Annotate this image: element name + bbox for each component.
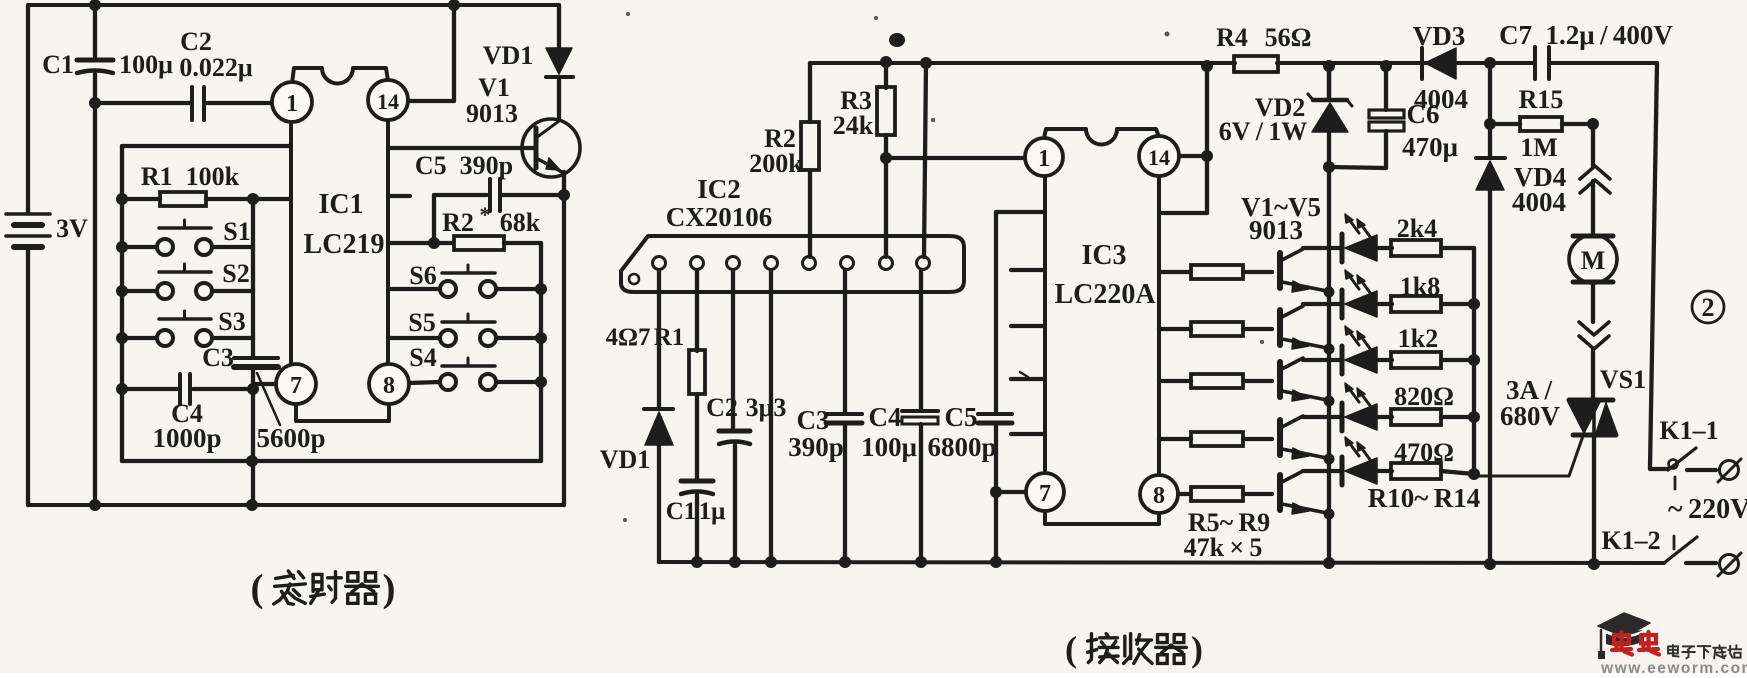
svg-text:www.eeworm.com: www.eeworm.com [1600, 660, 1747, 673]
resistor R2 200k receiver [808, 63, 812, 122]
switch S2 [122, 289, 157, 293]
wire transmitter top rail [28, 3, 559, 7]
svg-text:C7 1.2μ / 400V: C7 1.2μ / 400V [1499, 20, 1673, 50]
svg-text:1000p: 1000p [152, 423, 221, 453]
wire right switch rail [539, 243, 543, 461]
svg-text:~ 220V: ~ 220V [1668, 494, 1747, 525]
svg-text:VD1: VD1 [600, 445, 651, 474]
svg-text:R1: R1 [654, 324, 685, 351]
svg-text:): ) [383, 567, 396, 610]
svg-text:2: 2 [1702, 293, 1715, 322]
svg-text:C5 390p: C5 390p [415, 151, 513, 180]
pin 4 of IC2 [765, 257, 778, 270]
svg-text:8: 8 [383, 373, 395, 399]
logo text dianzi xiazaizhan [1668, 645, 1679, 656]
svg-text:1μ: 1μ [699, 498, 726, 525]
capacitor C3 5600p [234, 356, 278, 360]
svg-text:200k: 200k [749, 149, 803, 178]
LED VD3 indicator [1303, 358, 1341, 362]
diode VD1 transmitter [557, 5, 561, 47]
pin 14 of IC1 [368, 80, 408, 120]
svg-text:1: 1 [1038, 146, 1050, 172]
transistor V4 [1277, 420, 1283, 455]
wire keypad left rail [120, 146, 124, 461]
wire R3 to IC3 pin1 [886, 156, 1024, 160]
svg-text:R15: R15 [1519, 85, 1564, 114]
IC U1 IC1 LC219 body [292, 68, 388, 83]
svg-text:R1 100k: R1 100k [141, 162, 240, 191]
diode VD3 4004 [1420, 48, 1424, 79]
pin 8 of IC1 [369, 364, 409, 404]
wire LED right rail [1472, 248, 1476, 474]
svg-text:14: 14 [1148, 145, 1170, 170]
pin 14 of IC3 [1139, 136, 1179, 176]
motor M with coupling arrows [1591, 124, 1595, 166]
wire V1 emitter column [562, 172, 566, 505]
svg-text:4004: 4004 [1414, 84, 1468, 114]
capacitor C2 0.022u [190, 87, 194, 120]
scan specks [626, 12, 630, 16]
capacitor C1 100u [93, 5, 97, 57]
svg-text:(: ( [251, 567, 264, 610]
svg-text:47k × 5: 47k × 5 [1184, 533, 1263, 562]
transistor V5 [1277, 475, 1283, 510]
capacitor C2 3u3 [731, 270, 735, 428]
wire pin7 stub [255, 382, 276, 386]
wire receiver bottom rail [659, 562, 1664, 563]
svg-text:C4: C4 [869, 402, 902, 432]
capacitor C4 1000p [122, 387, 177, 391]
svg-text:680V: 680V [1500, 401, 1561, 431]
diode VD1 receiver [657, 270, 661, 407]
switch K1-2 [1664, 537, 1697, 563]
svg-text:24k: 24k [833, 111, 874, 140]
svg-text:): ) [1191, 629, 1203, 669]
zener diode VD2 6V1W [1323, 60, 1335, 72]
capacitor C1 1u receiver [681, 479, 713, 484]
svg-text:(: ( [1065, 629, 1077, 669]
wire V1 base [388, 146, 534, 150]
svg-text:C2: C2 [180, 27, 212, 56]
node C5 to pin7 junction [990, 486, 1002, 498]
svg-text:R10~ R14: R10~ R14 [1368, 483, 1480, 513]
svg-text:VD1: VD1 [483, 41, 534, 70]
wire keypad box top [122, 144, 291, 148]
node top-right junction [448, 0, 460, 11]
svg-text:820Ω: 820Ω [1394, 382, 1454, 411]
svg-text:3μ3: 3μ3 [746, 393, 787, 422]
svg-text:IC1: IC1 [318, 189, 363, 220]
switch S1 [122, 245, 157, 249]
ink blob [889, 33, 905, 47]
pin 7 of IC1 [276, 364, 316, 404]
svg-text:470Ω: 470Ω [1394, 438, 1454, 467]
wire transmitter bottom rail [28, 503, 564, 507]
logo chongchong red characters [1612, 632, 1632, 655]
wire IC3 stub to C5 [996, 210, 1045, 214]
svg-text:68k: 68k [500, 208, 541, 237]
resistor R7 47k [1159, 379, 1191, 383]
pin 2 of IC2 [691, 257, 704, 270]
svg-text:CX20106: CX20106 [666, 202, 773, 232]
svg-text:56Ω: 56Ω [1265, 23, 1312, 52]
svg-text:IC3: IC3 [1081, 240, 1126, 271]
svg-text:VD3: VD3 [1413, 21, 1466, 51]
resistor R5 47k [1159, 270, 1191, 274]
svg-text:2k4: 2k4 [1397, 214, 1437, 243]
svg-text:R2: R2 [442, 208, 474, 237]
wire V1-V5 emitter rail [1327, 66, 1331, 99]
IC U3 IC3 LC220A body [1044, 129, 1159, 145]
resistor R8 47k [1159, 437, 1191, 441]
switch K1-1 [1669, 460, 1678, 469]
svg-text:6V / 1W: 6V / 1W [1219, 117, 1307, 146]
svg-text:C5: C5 [945, 402, 978, 432]
pin 7 of IC3 [1026, 473, 1064, 511]
LED VD2 indicator [1303, 302, 1341, 306]
resistor R15 1M [1488, 63, 1492, 158]
resistor R12 1k2 [1391, 352, 1441, 368]
svg-text:5600p: 5600p [256, 423, 325, 453]
capacitor C3 390p receiver [843, 270, 847, 412]
resistor R1 100k [122, 197, 160, 201]
transistor V3 [1277, 362, 1283, 397]
wire middle rail [251, 199, 255, 357]
svg-text:S3: S3 [218, 307, 245, 336]
transistor V2 [1277, 310, 1283, 345]
svg-text:C1: C1 [42, 50, 74, 79]
pin 8 of IC2 [917, 257, 930, 270]
svg-text:4Ω7: 4Ω7 [605, 324, 650, 351]
svg-text:S5: S5 [408, 308, 435, 337]
resistor R1 4ohm7 receiver [695, 270, 699, 351]
svg-text:S1: S1 [223, 217, 250, 246]
wire receiver top rail [810, 61, 1235, 65]
triac VS1 3A 680V [1569, 398, 1613, 403]
IC3 left stubs [1011, 268, 1045, 272]
wire inner bottom [122, 459, 541, 463]
pin 8 of IC3 [1140, 475, 1178, 513]
node VD2 C6 junction [1323, 161, 1335, 173]
logo graduation cap [1598, 613, 1650, 637]
svg-text:1k2: 1k2 [1398, 324, 1438, 353]
resistor R14 470&#937; [1391, 463, 1441, 479]
svg-text:9013: 9013 [466, 99, 518, 128]
node C1 bottom junction [89, 97, 101, 109]
wire battery left column [26, 5, 30, 213]
resistor R9 47k [1178, 492, 1191, 496]
svg-text:4004: 4004 [1512, 187, 1566, 217]
resistor R2star 68k [388, 241, 452, 245]
wire third column to IC2 [924, 63, 926, 257]
svg-text:VS1: VS1 [1600, 365, 1646, 394]
switch S6 [388, 287, 440, 291]
pin indicator circle IC2 [629, 274, 639, 284]
pin 6 of IC2 [841, 257, 854, 270]
capacitor C5 6800p receiver [994, 212, 998, 411]
diode VD4 4004 [1476, 156, 1505, 160]
wire right rail to K1-1 [1650, 63, 1657, 468]
svg-text:V1: V1 [478, 73, 510, 102]
svg-text:1M: 1M [1520, 133, 1558, 162]
capacitor C7 1.2u 400V [1533, 47, 1537, 79]
svg-text:S6: S6 [409, 261, 436, 290]
svg-text:C3: C3 [797, 405, 830, 435]
pin 1 of IC1 [272, 82, 312, 122]
switch S3 [122, 336, 157, 340]
svg-text:C2: C2 [706, 393, 738, 422]
svg-text:470μ: 470μ [1402, 132, 1458, 162]
resistor R10 2k4 [1391, 240, 1441, 256]
resistor R4 56ohm [1234, 56, 1278, 72]
LED VD5 indicator [1303, 469, 1341, 473]
svg-text:LC219: LC219 [304, 229, 385, 260]
svg-text:9013: 9013 [1249, 215, 1303, 245]
svg-text:0.022μ: 0.022μ [179, 53, 253, 82]
svg-text:390p: 390p [788, 432, 844, 462]
svg-text:IC2: IC2 [697, 174, 741, 204]
svg-text:K1–1: K1–1 [1659, 416, 1718, 445]
resistor R11 1k8 [1391, 296, 1441, 312]
svg-text:R4: R4 [1216, 23, 1248, 52]
wire IC2 pin4 column [769, 270, 773, 562]
callout line 5600p [257, 373, 280, 425]
svg-text:14: 14 [377, 89, 399, 114]
svg-text:C3: C3 [202, 343, 234, 372]
resistor R13 820&#937; [1391, 409, 1441, 425]
capacitor C6 470u [1380, 60, 1392, 72]
svg-text:7: 7 [1039, 481, 1051, 507]
transistor V1 [1277, 253, 1283, 288]
svg-text:6800p: 6800p [927, 432, 996, 462]
svg-text:S2: S2 [222, 259, 249, 288]
wire C1 to C2 to pin1 [95, 101, 190, 105]
resistor R6 47k [1159, 327, 1191, 331]
transistor V1 9013 [522, 119, 580, 177]
label circled 2 [1692, 291, 1724, 323]
LED VD4 indicator [1303, 415, 1341, 419]
wire pin14 loop [1179, 154, 1204, 158]
svg-text:1k8: 1k8 [1400, 272, 1440, 301]
svg-text:C1: C1 [666, 498, 697, 525]
wire IC1 right stub [388, 194, 410, 198]
wire VS1 gate [1474, 433, 1584, 476]
node top-left junction [89, 0, 101, 11]
svg-text:100μ: 100μ [861, 432, 917, 462]
resistor R3 24k [884, 62, 888, 88]
wire pin14 to top rail [409, 99, 454, 103]
pin 1 of IC2 [653, 257, 666, 270]
node top right junction [1484, 57, 1496, 69]
svg-text:8: 8 [1153, 483, 1165, 509]
switch S4 [409, 382, 440, 383]
capacitor C4 100u receiver [919, 270, 923, 409]
pin 7 of IC2 [880, 257, 893, 270]
IC U2 IC2 CX20106 body [621, 236, 964, 292]
pin 3 of IC2 [727, 257, 740, 270]
svg-text:M: M [1581, 246, 1606, 275]
capacitor C5 390p [432, 195, 436, 243]
LED VD1 indicator [1303, 246, 1341, 250]
pin 5 of IC2 [803, 257, 816, 270]
pin 1 of IC3 [1025, 138, 1063, 176]
switch S5 [388, 336, 440, 340]
svg-text:LC220A: LC220A [1054, 279, 1156, 310]
svg-text:3V: 3V [56, 214, 88, 243]
svg-text:1: 1 [286, 91, 298, 117]
svg-text:K1–2: K1–2 [1601, 526, 1660, 555]
svg-text:S4: S4 [409, 343, 436, 372]
svg-text:7: 7 [290, 373, 302, 399]
svg-text:100μ: 100μ [119, 50, 173, 79]
battery 3V [6, 212, 50, 216]
